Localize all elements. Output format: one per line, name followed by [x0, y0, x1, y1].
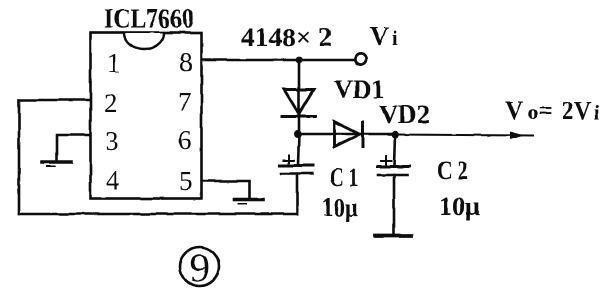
svg-text:4: 4 [106, 165, 120, 195]
capacitor C1 [298, 134, 299, 165]
U1 pin-1 notch [124, 33, 164, 49]
ground (C2) [375, 234, 411, 238]
svg-text:VD1: VD1 [334, 75, 385, 104]
ground (pin 5) [234, 198, 263, 202]
diode VD2 [335, 122, 361, 148]
svg-text:10μ: 10μ [439, 192, 480, 221]
svg-text:5: 5 [179, 166, 193, 196]
svg-text:VD2: VD2 [379, 100, 430, 129]
node junction at VD1 top [296, 57, 303, 64]
node junction A [294, 130, 302, 138]
wire bottom return [19, 213, 297, 216]
wire rail to VD2 [299, 133, 395, 136]
svg-text:2V: 2V [562, 96, 591, 125]
svg-text:C 1: C 1 [330, 163, 358, 192]
IC U1 ICL7660 body [91, 33, 202, 199]
svg-text:i: i [594, 102, 600, 124]
svg-text:o: o [528, 102, 538, 124]
wire pin5 to ground [202, 181, 250, 198]
wire left riser [18, 100, 21, 214]
figure number 9 circle [180, 247, 219, 286]
svg-text:6: 6 [178, 125, 192, 155]
node junction B [391, 131, 399, 139]
svg-text:10μ: 10μ [322, 193, 358, 222]
svg-text:8: 8 [179, 47, 193, 77]
diode VD1 [284, 90, 314, 115]
svg-text:i: i [392, 28, 398, 50]
svg-text:3: 3 [105, 126, 119, 156]
svg-text:2: 2 [104, 88, 118, 118]
svg-text:9: 9 [190, 245, 210, 290]
svg-text:V: V [505, 96, 524, 125]
capacitor C2 [394, 135, 395, 167]
svg-text:C 2: C 2 [437, 156, 468, 185]
wire junction down to VD1 [298, 60, 301, 134]
svg-text:=: = [538, 96, 553, 125]
terminal Vi circle [355, 54, 366, 65]
wire pin3 to ground [57, 135, 90, 161]
wire output with arrow [395, 135, 533, 136]
wire pin8 to Vi [202, 59, 354, 62]
wire pin2 [19, 99, 90, 102]
svg-text:1: 1 [107, 48, 121, 78]
ground (pin 3) [42, 160, 71, 164]
svg-text:7: 7 [178, 87, 192, 117]
svg-text:ICL7660: ICL7660 [104, 4, 194, 34]
svg-text:4148× 2: 4148× 2 [241, 23, 332, 52]
svg-text:V: V [370, 22, 389, 51]
